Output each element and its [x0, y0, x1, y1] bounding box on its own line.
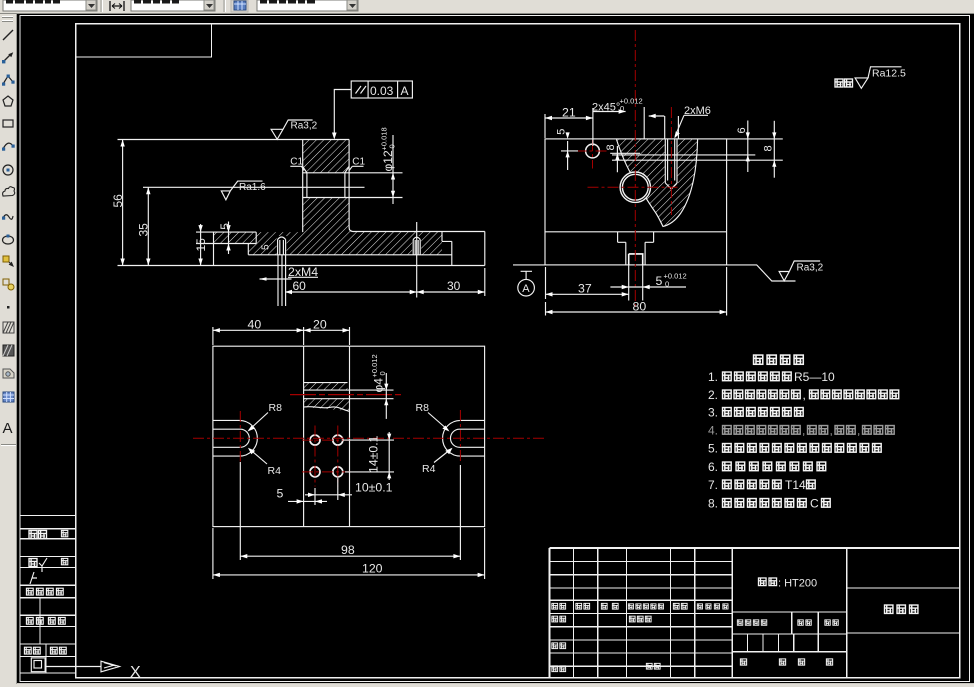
- svg-text:0.03: 0.03: [370, 84, 394, 98]
- plan view outline: [213, 346, 485, 526]
- svg-text:5: 5: [218, 223, 232, 230]
- svg-text:80: 80: [633, 300, 647, 314]
- dim 80: [546, 267, 727, 316]
- svg-text:40: 40: [248, 318, 262, 332]
- extension lines below M4 holes: [278, 222, 417, 306]
- dim 8 (right): [773, 121, 775, 178]
- title block grid: [549, 548, 959, 678]
- tech req line 3: [708, 406, 803, 420]
- svg-text:20: 20: [313, 318, 327, 332]
- dim 6 (right): [747, 121, 749, 173]
- dim 56: [122, 140, 124, 266]
- svg-text:,: ,: [803, 388, 806, 402]
- svg-text:2.: 2.: [708, 388, 718, 402]
- svg-text:Ra12.5: Ra12.5: [872, 68, 906, 80]
- svg-text:: HT200: : HT200: [778, 578, 817, 590]
- dim 5 +0.012/0 keyway: [610, 286, 686, 288]
- technical requirements heading: [754, 355, 804, 364]
- phi4 red centerline: [290, 394, 402, 396]
- tech req line 8: [708, 497, 830, 511]
- svg-text:8.: 8.: [708, 497, 718, 511]
- tenon and stem at bottom: [618, 232, 654, 265]
- dim 21: [545, 108, 593, 146]
- svg-text:5.: 5.: [708, 442, 718, 456]
- dim 37: [546, 266, 643, 301]
- canvas axis arrow: [45, 661, 120, 672]
- svg-text:60: 60: [293, 279, 307, 293]
- surface finish Ra3.2 on top face: [271, 120, 313, 139]
- left toolbar icons: [2, 30, 15, 437]
- svg-text:5: 5: [261, 244, 272, 250]
- dim 30: [417, 268, 485, 296]
- top-left header box: [76, 24, 212, 58]
- svg-text:8: 8: [763, 145, 775, 151]
- svg-text:14±0.1: 14±0.1: [367, 435, 381, 473]
- svg-text:A: A: [522, 283, 530, 295]
- svg-text:8: 8: [605, 144, 617, 150]
- tech req line 2: [708, 388, 899, 402]
- dim phi4 +0.012/0: [385, 373, 387, 419]
- svg-text:,: ,: [830, 424, 833, 438]
- svg-text:6: 6: [736, 127, 748, 133]
- keyway slot in stem: [629, 254, 643, 265]
- svg-text:3.: 3.: [708, 406, 718, 420]
- tech req line 6: [708, 460, 826, 474]
- dim 10±0.1: [305, 478, 352, 500]
- svg-text:,: ,: [857, 424, 860, 438]
- phi4 broken-out hatch strips: [304, 383, 348, 391]
- red centerlines: [576, 30, 678, 307]
- svg-text:X: X: [130, 664, 141, 681]
- dim 40: [213, 327, 350, 345]
- dim 5 (slot depth small): [261, 244, 272, 250]
- dim 5 plan: [288, 488, 327, 505]
- M6 tapped hole (sectioned): [665, 140, 677, 189]
- M4 hole voids in hatch: [277, 236, 287, 255]
- svg-text:10±0.1: 10±0.1: [355, 481, 393, 495]
- svg-text:A: A: [401, 84, 409, 98]
- general roughness note 其余 Ra12.5: [835, 67, 906, 89]
- bottom-left table text (描图/描校/底图总号/签字/日期): [24, 530, 67, 654]
- right slot (R8/R4): [443, 420, 485, 456]
- dim 60: [285, 291, 417, 293]
- M4 tapped hole left: [278, 237, 286, 255]
- svg-text:4.: 4.: [708, 424, 718, 438]
- dim 35: [147, 187, 149, 265]
- svg-text:Ra1.6: Ra1.6: [239, 182, 266, 193]
- parallelism tolerance frame // 0.03 A: [334, 81, 412, 134]
- side view outline: [545, 139, 783, 265]
- svg-text:5: 5: [277, 487, 284, 501]
- svg-text:0: 0: [388, 144, 397, 148]
- svg-text:98: 98: [341, 543, 355, 557]
- svg-text:120: 120: [362, 562, 383, 576]
- front view outline: [118, 140, 485, 266]
- datum A symbol: [513, 265, 546, 296]
- svg-text:37: 37: [578, 282, 592, 296]
- dim 98: [240, 462, 460, 560]
- top toolbar: [0, 0, 974, 14]
- tech req line 5: [708, 442, 881, 456]
- svg-text:Ra3,2: Ra3,2: [797, 263, 824, 274]
- dim phi12 +0.018/0: [392, 135, 394, 204]
- bottom status strip: [0, 684, 974, 687]
- front view hatch: top boss block: [303, 140, 349, 173]
- surface finish Ra3.2 right: [727, 261, 821, 281]
- svg-text:35: 35: [137, 223, 151, 237]
- svg-text:1.: 1.: [708, 370, 718, 384]
- svg-text:15: 15: [194, 238, 208, 252]
- projection symbol (double square): [31, 658, 45, 672]
- 4 mounting holes: [310, 435, 343, 477]
- small side hole circle: [586, 144, 600, 158]
- svg-text:R4: R4: [422, 463, 436, 475]
- tech req line 1: [708, 370, 835, 384]
- title block texts: [758, 578, 917, 614]
- svg-text:φ4: φ4: [372, 378, 386, 393]
- svg-text:φ12: φ12: [381, 150, 395, 171]
- svg-text:21: 21: [562, 106, 576, 120]
- svg-text:T14: T14: [785, 478, 806, 492]
- dim 14±0.1: [343, 432, 394, 480]
- phi12 hole end circles: [620, 172, 650, 202]
- broken-out section hatch around M6: [617, 140, 698, 227]
- svg-text:30: 30: [447, 279, 461, 293]
- dim 5 (step): [228, 222, 230, 255]
- dim 15: [200, 224, 202, 266]
- svg-text:R8: R8: [269, 402, 283, 414]
- tech req line 4 (gray): [708, 424, 894, 438]
- dim 120: [213, 528, 485, 579]
- svg-text:0: 0: [665, 280, 669, 289]
- M4 tapped hole right: [413, 237, 420, 255]
- svg-text:2xM4: 2xM4: [288, 265, 318, 279]
- svg-text:5: 5: [656, 274, 663, 288]
- hole voids over hatch: [620, 172, 651, 203]
- svg-text:Ra3,2: Ra3,2: [291, 121, 318, 132]
- svg-text:R5—10: R5—10: [794, 370, 835, 384]
- red centerlines plan: [193, 410, 545, 487]
- svg-text:C: C: [810, 497, 819, 511]
- svg-text:0: 0: [378, 371, 387, 375]
- svg-text:56: 56: [111, 194, 125, 208]
- svg-text:6.: 6.: [708, 460, 718, 474]
- left toolbar: [0, 14, 17, 687]
- svg-text:R4: R4: [268, 465, 282, 477]
- svg-text:,: ,: [802, 424, 805, 438]
- bottom-left revision table: [20, 516, 76, 674]
- svg-text:R8: R8: [416, 402, 430, 414]
- svg-text:7.: 7.: [708, 478, 718, 492]
- phi4 section boundary lines: [304, 383, 394, 412]
- surface finish Ra1.6 on hole: [221, 181, 262, 200]
- svg-text:A: A: [3, 420, 13, 437]
- dim 8 (small, notch): [610, 146, 640, 172]
- front view hatch: column and base band: [214, 198, 443, 255]
- dim 5 (hole to top): [561, 141, 578, 170]
- svg-text:5: 5: [556, 129, 568, 135]
- left slot (R8/R4): [213, 420, 257, 456]
- tech req line 7: [708, 478, 815, 492]
